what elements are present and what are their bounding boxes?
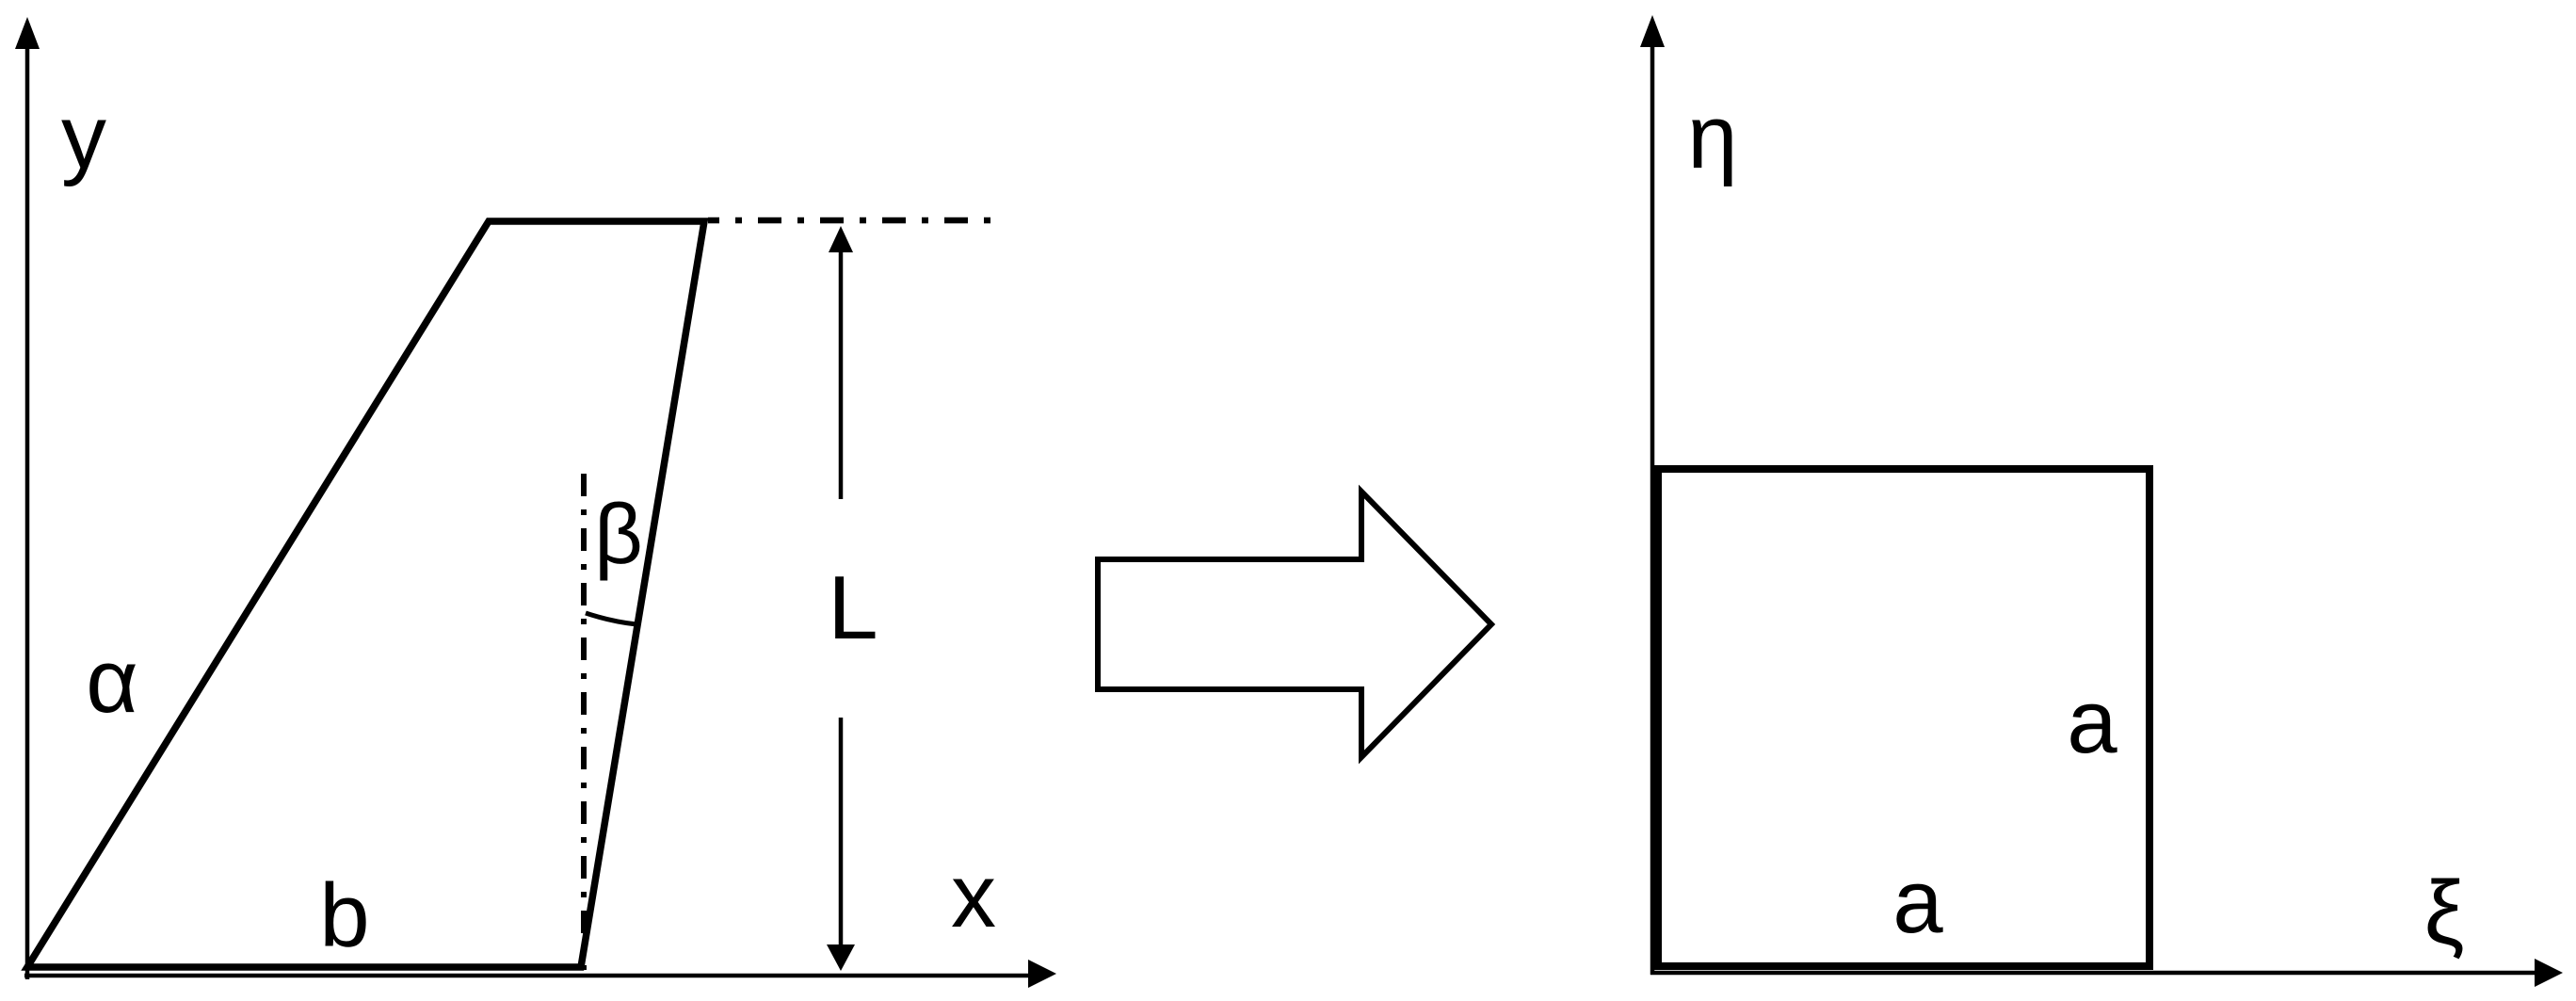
svg-text:L: L [828, 557, 877, 658]
svg-text:a: a [1892, 851, 1943, 952]
xi-axis arrowhead [2535, 959, 2563, 987]
x-axis line [24, 974, 1036, 978]
dimension L top arrowhead [829, 226, 853, 252]
svg-text:x: x [951, 846, 996, 946]
dimension L bottom segment [839, 718, 844, 946]
dash-dot horizontal extension line [708, 218, 996, 224]
svg-text:b: b [319, 865, 369, 966]
svg-text:α: α [86, 631, 138, 732]
square [1658, 469, 2149, 966]
big transform arrow [1098, 492, 1491, 757]
svg-text:η: η [1687, 87, 1737, 187]
xi-axis line [1650, 971, 2536, 976]
svg-text:y: y [61, 87, 106, 187]
x-axis arrowhead [1028, 960, 1056, 988]
dash-dot vertical reference line [581, 474, 587, 970]
svg-text:β: β [594, 488, 643, 582]
eta-axis line [1650, 41, 1655, 975]
svg-text:a: a [2067, 671, 2117, 772]
dimension L bottom arrowhead [827, 944, 855, 971]
svg-text:ξ: ξ [2424, 863, 2465, 963]
dimension L top segment [839, 249, 844, 499]
y-axis line [25, 41, 30, 979]
angle beta arc [586, 613, 636, 624]
y-axis arrowhead [15, 17, 40, 49]
trapezoid [27, 221, 704, 967]
eta-axis arrowhead [1640, 15, 1665, 47]
